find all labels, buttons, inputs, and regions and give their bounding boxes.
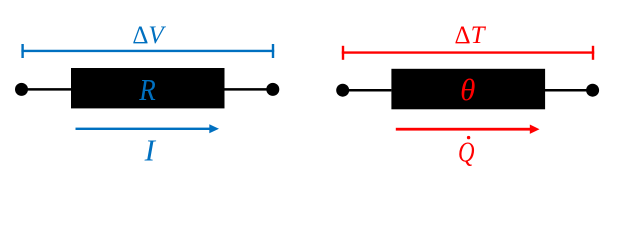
svg-text:θ: θ — [460, 72, 475, 107]
node: right terminal dot of R — [266, 83, 279, 96]
wire: right lead of thermal resistance θ — [545, 89, 593, 92]
dimension line ΔV (voltage drop bracket) — [21, 44, 274, 58]
node: left terminal dot of θ — [336, 84, 349, 97]
node: right terminal dot of θ — [586, 84, 599, 97]
svg-text:I: I — [144, 132, 157, 167]
svg-text:ΔV: ΔV — [132, 22, 166, 49]
resistor R body — [71, 68, 225, 108]
wire: right lead of resistor R — [225, 88, 273, 91]
current arrow I — [76, 124, 220, 133]
dimension line ΔT (temperature drop bracket) — [342, 46, 594, 60]
thermal resistance θ body — [391, 69, 545, 110]
svg-text:R: R — [138, 72, 155, 107]
heat flow arrow Q̇ — [396, 125, 540, 134]
svg-text:Q: Q — [458, 136, 475, 168]
node: left terminal dot of R — [15, 83, 28, 96]
wire: left lead of thermal resistance θ — [343, 89, 392, 92]
svg-text:ΔT: ΔT — [455, 22, 487, 49]
wire: left lead of resistor R — [22, 88, 72, 91]
